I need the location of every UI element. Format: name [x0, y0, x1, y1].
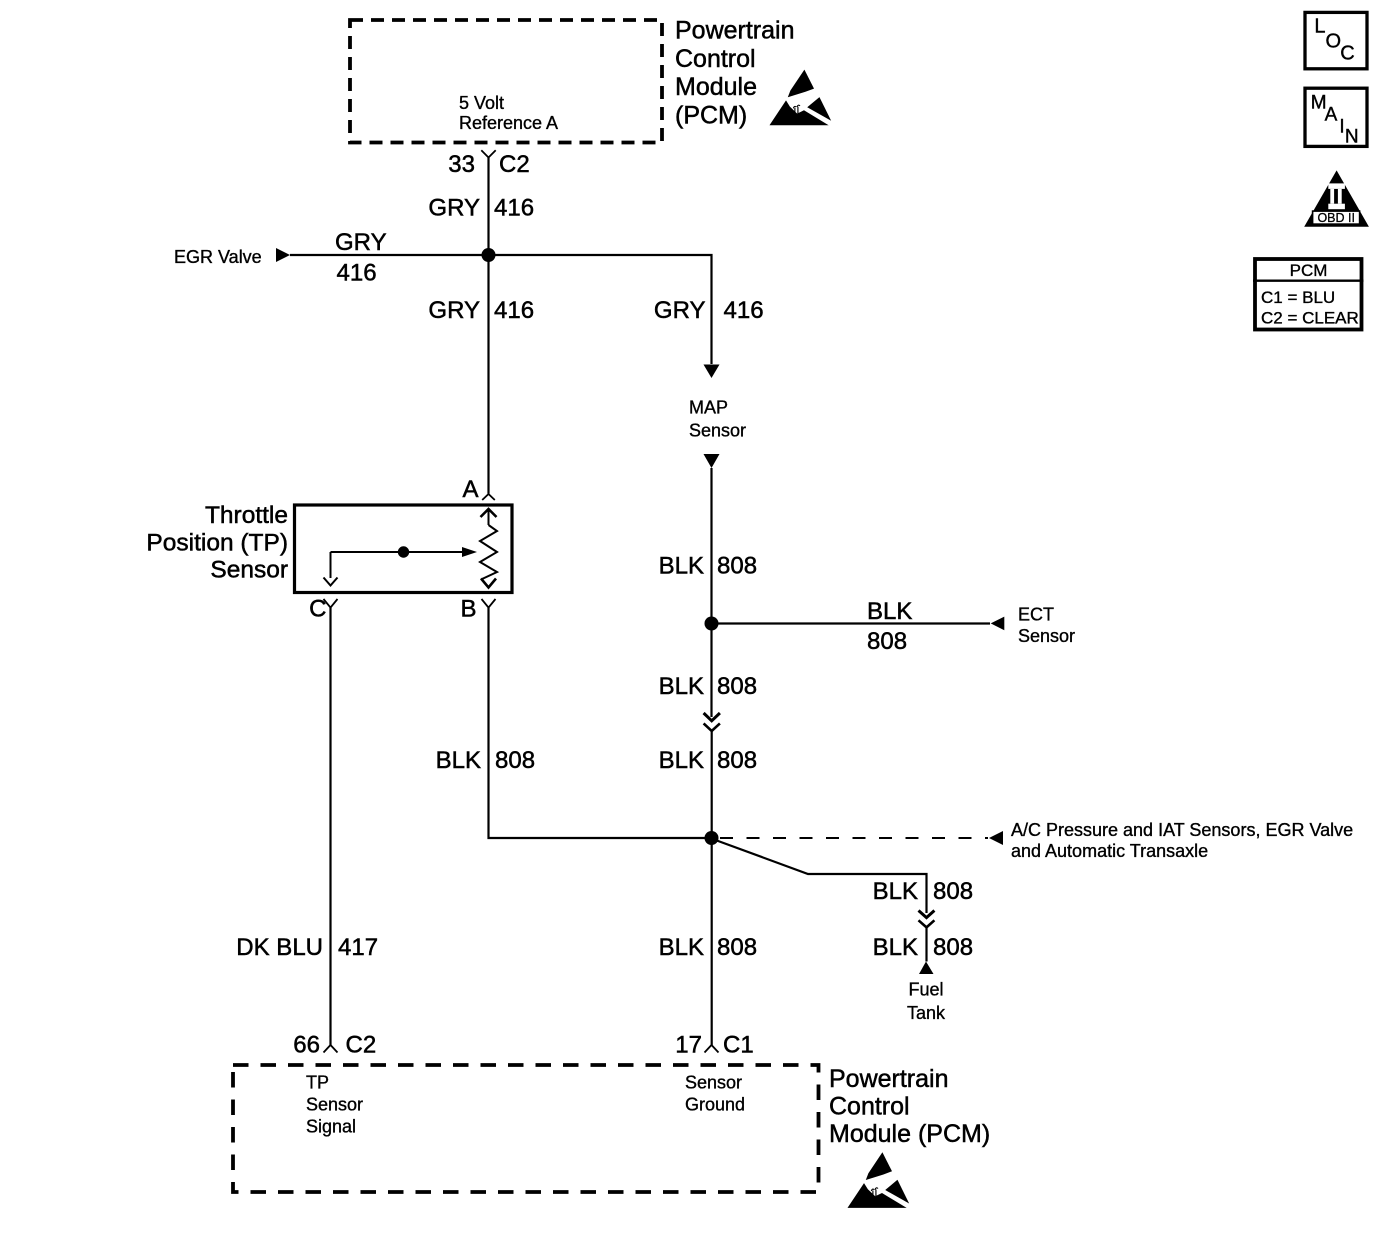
svg-text:GRY: GRY [335, 229, 387, 256]
svg-text:BLK: BLK [659, 934, 704, 961]
svg-text:Position (TP): Position (TP) [146, 529, 288, 556]
svg-text:Sensor: Sensor [210, 557, 288, 584]
svg-text:A/C Pressure and IAT Sensors,: A/C Pressure and IAT Sensors, EGR Valve [1011, 820, 1353, 840]
svg-text:C2: C2 [346, 1032, 377, 1059]
svg-text:Control: Control [829, 1092, 910, 1120]
svg-text:C1: C1 [723, 1032, 754, 1059]
svg-text:L: L [1314, 16, 1325, 38]
svg-text:416: 416 [337, 260, 377, 287]
svg-text:808: 808 [867, 628, 907, 655]
svg-text:C1 = BLU: C1 = BLU [1261, 288, 1335, 307]
svg-text:Tank: Tank [907, 1003, 946, 1023]
svg-text:EGR Valve: EGR Valve [174, 247, 262, 267]
svg-text:B: B [460, 595, 476, 622]
svg-text:C2: C2 [499, 151, 530, 178]
svg-text:GRY: GRY [428, 297, 480, 324]
svg-text:DK BLU: DK BLU [236, 934, 323, 961]
svg-text:808: 808 [717, 934, 757, 961]
svg-text:Reference A: Reference A [459, 113, 558, 133]
svg-text:A: A [1325, 105, 1338, 126]
svg-text:MAP: MAP [689, 398, 728, 418]
svg-text:BLK: BLK [436, 747, 481, 774]
svg-text:Module (PCM): Module (PCM) [829, 1120, 990, 1148]
svg-text:Control: Control [675, 45, 756, 73]
svg-text:ECT: ECT [1018, 604, 1054, 624]
svg-text:BLK: BLK [873, 878, 918, 905]
svg-text:GRY: GRY [654, 297, 706, 324]
svg-text:Module: Module [675, 73, 757, 101]
svg-text:808: 808 [495, 747, 535, 774]
svg-text:808: 808 [933, 878, 973, 905]
svg-text:Sensor: Sensor [306, 1095, 363, 1115]
svg-text:808: 808 [717, 553, 757, 580]
svg-text:and Automatic Transaxle: and Automatic Transaxle [1011, 841, 1208, 861]
svg-text:I: I [1339, 117, 1344, 138]
svg-text:C: C [1340, 43, 1354, 65]
svg-text:66: 66 [293, 1032, 320, 1059]
svg-text:33: 33 [448, 151, 475, 178]
svg-text:808: 808 [933, 934, 973, 961]
svg-text:Sensor: Sensor [689, 420, 746, 440]
svg-text:N: N [1345, 127, 1359, 148]
svg-text:Sensor: Sensor [1018, 626, 1075, 646]
svg-text:416: 416 [494, 297, 534, 324]
svg-text:C2 = CLEAR: C2 = CLEAR [1261, 309, 1359, 328]
svg-text:808: 808 [717, 747, 757, 774]
svg-text:416: 416 [724, 297, 764, 324]
svg-text:GRY: GRY [428, 195, 480, 222]
svg-text:BLK: BLK [659, 673, 704, 700]
svg-text:A: A [462, 476, 478, 503]
svg-text:OBD II: OBD II [1317, 211, 1355, 225]
svg-text:O: O [1326, 31, 1342, 53]
svg-text:416: 416 [494, 195, 534, 222]
svg-text:Powertrain: Powertrain [675, 16, 795, 44]
svg-text:(PCM): (PCM) [675, 102, 747, 130]
svg-text:PCM: PCM [1290, 261, 1328, 280]
svg-text:Ground: Ground [685, 1095, 745, 1115]
svg-text:17: 17 [675, 1032, 702, 1059]
svg-text:Fuel: Fuel [908, 980, 943, 1000]
svg-text:BLK: BLK [659, 747, 704, 774]
svg-text:BLK: BLK [659, 553, 704, 580]
svg-text:BLK: BLK [867, 598, 912, 625]
svg-text:417: 417 [338, 934, 378, 961]
svg-text:Signal: Signal [306, 1117, 356, 1137]
svg-text:Throttle: Throttle [205, 502, 288, 529]
svg-text:Sensor: Sensor [685, 1073, 742, 1093]
svg-text:Powertrain: Powertrain [829, 1065, 949, 1093]
svg-text:5 Volt: 5 Volt [459, 93, 504, 113]
svg-text:BLK: BLK [873, 934, 918, 961]
svg-text:808: 808 [717, 673, 757, 700]
svg-text:TP: TP [306, 1073, 329, 1093]
svg-text:C: C [309, 595, 326, 622]
